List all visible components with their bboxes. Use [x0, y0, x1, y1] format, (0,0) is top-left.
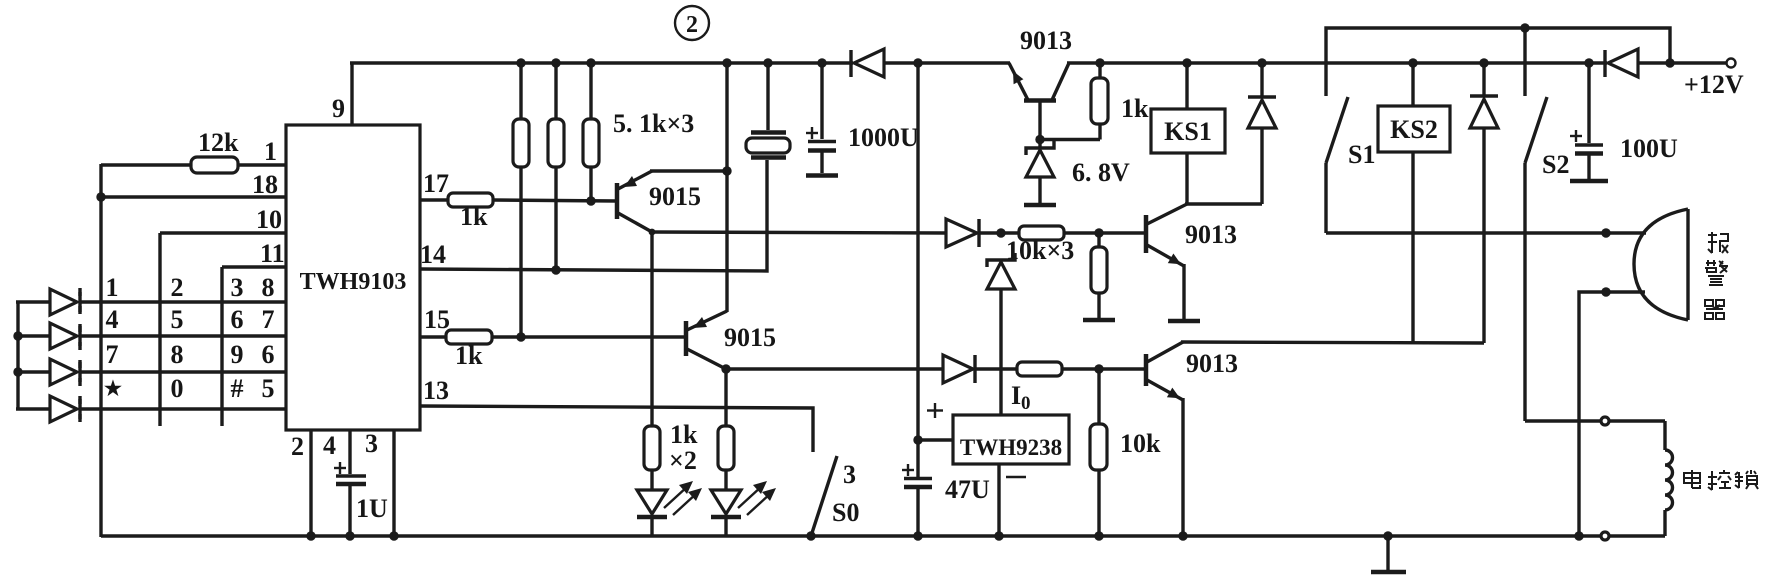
- diode KS1 freewheel: [1248, 63, 1276, 204]
- wire anode stub row1: [16, 300, 50, 303]
- svg-text:10k: 10k: [1120, 429, 1161, 458]
- svg-text:9: 9: [231, 340, 244, 369]
- ground 1000U: [806, 173, 838, 178]
- svg-text:9013: 9013: [1186, 349, 1238, 378]
- svg-text:#: #: [231, 374, 244, 403]
- capacitor 47U column: [902, 63, 990, 537]
- svg-text:1000U: 1000U: [848, 123, 919, 152]
- wire TWH9238 bottom lead: [997, 464, 1000, 537]
- node 10k vertical top: [1094, 228, 1103, 237]
- svg-text:4: 4: [323, 431, 336, 460]
- capacitor 100U: [1570, 63, 1678, 179]
- wire KS1 bottom to QB collector: [1185, 202, 1262, 205]
- diode series 10k net: [946, 219, 1019, 247]
- wire keypad row3: [79, 370, 286, 373]
- node zener2 top: [996, 228, 1005, 237]
- wire TWH9238 left input: [918, 438, 953, 441]
- resistor 5.1k no1: [513, 63, 529, 337]
- node base line 5.1k no1 junction: [516, 332, 525, 341]
- label diankongsuo char kong: [1708, 470, 1731, 490]
- wire S1 to speaker: [1326, 231, 1646, 234]
- svg-text:S2: S2: [1542, 150, 1569, 179]
- node QA base junction: [1035, 135, 1044, 144]
- terminal +12V: [1684, 59, 1744, 100]
- wire Q1 collector line: [651, 232, 946, 233]
- relay coil KS1: [1151, 63, 1225, 204]
- svg-text:5: 5: [171, 305, 184, 334]
- svg-text:17: 17: [423, 169, 449, 198]
- label baojingqi char qi: [1705, 300, 1724, 319]
- svg-text:×2: ×2: [669, 446, 697, 475]
- resistor 10k vertical A: [1091, 233, 1107, 318]
- svg-text:2: 2: [171, 273, 184, 302]
- keypad common anode vertical wire: [16, 302, 19, 409]
- wire QA base branch: [1040, 100, 1100, 148]
- diode supply right: [1605, 49, 1726, 77]
- svg-text:9: 9: [332, 94, 345, 123]
- svg-text:6: 6: [262, 340, 275, 369]
- svg-text:S0: S0: [832, 498, 859, 527]
- terminal lock bottom: [1601, 532, 1609, 540]
- svg-text:5: 5: [262, 374, 275, 403]
- node diode KS2 top: [1479, 58, 1488, 67]
- keypad digits row1: [106, 273, 275, 302]
- LED column 1: [637, 232, 702, 537]
- wire speaker bottom terminal: [1579, 292, 1645, 537]
- keypad digits row4: [104, 374, 274, 403]
- wire bottom ground bus: [101, 534, 1665, 537]
- svg-text:3: 3: [843, 460, 856, 489]
- wire anode stub row3: [16, 370, 50, 373]
- node crystal top: [763, 58, 772, 67]
- svg-text:1k: 1k: [455, 341, 483, 370]
- wire keypad row1: [79, 300, 286, 303]
- LED column 2: [711, 369, 776, 537]
- node QC emitter bottom: [1178, 531, 1187, 540]
- IC pin2 lead: [309, 430, 312, 537]
- node speaker ground junction: [1574, 531, 1583, 540]
- svg-text:I: I: [1011, 381, 1021, 410]
- node pin3 bottom: [389, 531, 398, 540]
- svg-text:1k: 1k: [1121, 94, 1149, 123]
- wire top outer line S1 S2: [1326, 28, 1670, 96]
- ground QB emitter: [1168, 319, 1200, 324]
- node 47U bottom: [913, 531, 922, 540]
- resistor 1k pin15: [420, 330, 686, 370]
- svg-text:3: 3: [365, 429, 378, 458]
- resistor 10k bottom: [1090, 369, 1161, 537]
- node speaker top terminal: [1601, 228, 1610, 237]
- wire keypad column1 vertical: [99, 164, 102, 537]
- svg-text:6. 8V: 6. 8V: [1072, 158, 1130, 187]
- svg-text:KS2: KS2: [1390, 115, 1438, 144]
- svg-text:11: 11: [260, 239, 285, 268]
- transistor QC 9013: [1146, 342, 1238, 400]
- svg-text:9013: 9013: [1020, 26, 1072, 55]
- svg-text:TWH9238: TWH9238: [960, 435, 1062, 460]
- node base line 5.1k no3 junction: [586, 196, 595, 205]
- resistor 12k: [101, 128, 286, 173]
- wire top supply bus left: [350, 61, 853, 64]
- svg-text:15: 15: [424, 305, 450, 334]
- resistor 1k QA: [1091, 63, 1149, 140]
- keypad digits row3: [106, 340, 275, 369]
- node S0 bottom: [806, 531, 815, 540]
- figure number circled 2: [675, 6, 709, 40]
- svg-text:KS1: KS1: [1164, 117, 1212, 146]
- diode row3: [50, 359, 80, 385]
- wire QC collector line: [1181, 342, 1484, 343]
- ground 100U: [1570, 179, 1608, 184]
- node diode KS1 top: [1257, 58, 1266, 67]
- label baojingqi char jing: [1705, 260, 1728, 285]
- svg-text:9015: 9015: [724, 323, 776, 352]
- wire pin11: [222, 265, 286, 268]
- svg-text:18: 18: [252, 170, 278, 199]
- diode row1: [50, 289, 80, 315]
- IC U2 TWH9238: [953, 415, 1069, 464]
- node pin2 bottom: [306, 531, 315, 540]
- node Q1 emitter riser junction: [722, 166, 731, 175]
- wire keypad row2: [79, 334, 286, 337]
- node S2 top: [1520, 23, 1529, 32]
- resistor 10k horizontal A: [1019, 226, 1146, 240]
- speaker horn: [1634, 209, 1688, 320]
- wire S2 to lock: [1525, 419, 1665, 422]
- node speaker bottom terminal: [1601, 287, 1610, 296]
- IC pin3 lead: [392, 430, 395, 537]
- svg-text:1: 1: [106, 273, 119, 302]
- svg-text:2: 2: [291, 432, 304, 461]
- value label 1k x2: [669, 420, 698, 475]
- node 1k QA top: [1095, 58, 1104, 67]
- diode row2: [50, 323, 80, 349]
- wire anode stub row2: [16, 334, 50, 337]
- diode KS2 freewheel: [1470, 63, 1498, 343]
- keypad digits row2: [106, 305, 275, 334]
- svg-text:1: 1: [264, 137, 277, 166]
- node emitter riser top: [722, 58, 731, 67]
- label minus TWH9238: [1006, 476, 1026, 478]
- svg-text:S1: S1: [1348, 140, 1375, 169]
- transistor Q2 9015: [686, 311, 776, 369]
- svg-text:8: 8: [171, 340, 184, 369]
- svg-text:100U: 100U: [1620, 134, 1678, 163]
- svg-text:0: 0: [171, 374, 184, 403]
- label diankongsuo char suo: [1735, 470, 1758, 489]
- zener 6.8V: [1026, 141, 1130, 203]
- node pin4 bottom: [345, 531, 354, 540]
- node TWH9238 bottom: [994, 531, 1003, 540]
- wire emitter riser vertical: [725, 63, 728, 312]
- label baojingqi char bao: [1708, 232, 1728, 253]
- node KS1 top: [1182, 58, 1191, 67]
- zener2: [987, 253, 1015, 415]
- node 47U input junction: [913, 435, 922, 444]
- node 1000U top: [817, 58, 826, 67]
- svg-text:9013: 9013: [1185, 220, 1237, 249]
- inductor lock coil: [1665, 421, 1673, 536]
- svg-text:3: 3: [231, 273, 244, 302]
- wire Q1 emitter to riser: [650, 169, 727, 172]
- svg-text:5. 1k×3: 5. 1k×3: [613, 109, 694, 138]
- switch S2: [1525, 28, 1569, 421]
- svg-text:TWH9103: TWH9103: [300, 269, 407, 295]
- ground zener 6.8V: [1024, 203, 1056, 208]
- label diankongsuo char dian: [1684, 470, 1700, 488]
- node row2 anode junction: [13, 331, 22, 340]
- node 10k bottom: [1094, 531, 1103, 540]
- svg-text:1k: 1k: [460, 202, 488, 231]
- resistor 1k pin17: [420, 193, 617, 231]
- svg-text:4: 4: [106, 305, 119, 334]
- svg-text:47U: 47U: [945, 475, 990, 504]
- IC U1 TWH9103: [286, 125, 420, 430]
- svg-text:9015: 9015: [649, 182, 701, 211]
- node ground main: [1383, 531, 1392, 540]
- diode supply left: [851, 49, 1010, 77]
- wire pin14 to crystal: [420, 160, 767, 271]
- diode row4: [50, 396, 80, 422]
- wire keypad column3 vertical: [220, 267, 223, 426]
- node pin18 column1 junction: [96, 192, 105, 201]
- svg-text:2: 2: [686, 12, 698, 38]
- wire Q2 collector line to diode: [726, 367, 943, 370]
- resistor 5.1k no3: [583, 63, 599, 201]
- terminal lock top: [1601, 417, 1609, 425]
- node row3 anode junction: [13, 367, 22, 376]
- node 47U column top: [913, 58, 922, 67]
- svg-text:+12V: +12V: [1684, 70, 1744, 99]
- transistor QB 9013: [1146, 204, 1237, 266]
- wire pin13 to switch S0: [420, 406, 813, 452]
- ground 10k vertical A: [1083, 318, 1115, 323]
- pin 9 riser: [350, 63, 353, 125]
- node 5.1k no1 top: [516, 58, 525, 67]
- relay coil KS2: [1378, 63, 1450, 343]
- svg-text:6: 6: [231, 305, 244, 334]
- svg-text:7: 7: [262, 305, 275, 334]
- crystal resonator: [746, 63, 790, 158]
- wire QB emitter to ground: [1182, 264, 1185, 319]
- resistor 10k horizontal B: [1017, 362, 1146, 376]
- node KS2 top: [1408, 58, 1417, 67]
- wire pin10: [160, 231, 286, 234]
- svg-text:1k: 1k: [670, 420, 698, 449]
- node Q1 collector LED column junction: [649, 229, 656, 236]
- resistor 5.1k no2: [548, 63, 564, 270]
- transistor QA 9013 pass: [1009, 26, 1072, 101]
- switch S0: [811, 456, 859, 536]
- svg-text:7: 7: [106, 340, 119, 369]
- svg-text:8: 8: [262, 273, 275, 302]
- capacitor 1000U: [806, 63, 919, 173]
- svg-text:10: 10: [256, 205, 282, 234]
- label plus TWH9238: [927, 403, 943, 418]
- svg-text:12k: 12k: [198, 128, 239, 157]
- capacitor 1U on pin4: [334, 430, 388, 537]
- wire anode stub row4: [16, 407, 50, 410]
- node 5.1k no2 top: [551, 58, 560, 67]
- transistor Q1 9015: [617, 171, 701, 232]
- label I0: [1011, 381, 1031, 414]
- node 10k bottom resistor top: [1094, 364, 1103, 373]
- wire keypad column2 vertical: [158, 233, 161, 426]
- node Q2 collector junction: [721, 364, 730, 373]
- node supply corner: [1665, 58, 1674, 67]
- dashed cathode line keypad: [78, 288, 81, 423]
- switch S1: [1326, 97, 1375, 233]
- ground main: [1371, 536, 1406, 572]
- wire keypad row4: [79, 407, 286, 410]
- node pin14 5.1k no2 junction: [551, 265, 560, 274]
- svg-text:0: 0: [1021, 393, 1031, 414]
- wire top supply bus right: [1067, 61, 1607, 64]
- svg-text:1U: 1U: [356, 494, 388, 523]
- wire pin18: [101, 195, 286, 198]
- node 100U top: [1584, 58, 1593, 67]
- svg-text:14: 14: [420, 240, 446, 269]
- svg-text:13: 13: [423, 376, 449, 405]
- node 5.1k no3 top: [586, 58, 595, 67]
- diode I0: [943, 355, 1017, 383]
- svg-text:★: ★: [104, 378, 122, 400]
- wire QC emitter to bus: [1181, 398, 1184, 537]
